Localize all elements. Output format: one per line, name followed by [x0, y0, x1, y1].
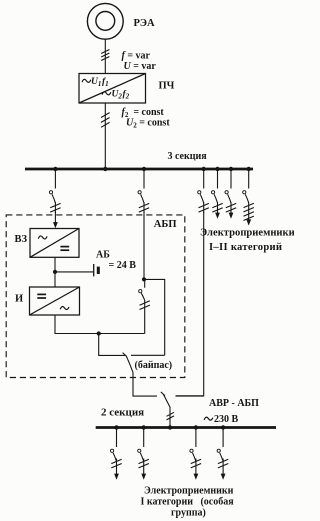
svg-text:И: И	[15, 293, 23, 304]
svg-text:(байпас): (байпас)	[135, 360, 173, 371]
svg-text:Электроприемники: Электроприемники	[144, 486, 234, 497]
svg-text:I–II категорий: I–II категорий	[209, 242, 282, 253]
svg-text:ПЧ: ПЧ	[159, 81, 175, 92]
svg-text:РЭА: РЭА	[134, 18, 156, 29]
svg-text:U2 = const: U2 = const	[126, 117, 170, 129]
svg-text:f = var: f = var	[122, 50, 151, 61]
svg-text:2 секция: 2 секция	[101, 406, 144, 418]
svg-text:U1f1: U1f1	[91, 77, 109, 88]
svg-text:= 24 В: = 24 В	[109, 260, 137, 271]
svg-text:ВЗ: ВЗ	[15, 234, 28, 245]
svg-text:АБП: АБП	[154, 219, 177, 230]
svg-text:U2f2: U2f2	[112, 90, 130, 101]
svg-text:U = var: U = var	[124, 61, 157, 72]
svg-text:группа): группа)	[171, 508, 206, 519]
svg-text:Электроприемники: Электроприемники	[200, 228, 294, 239]
svg-text:230 В: 230 В	[214, 414, 239, 425]
svg-text:I категории (особая: I категории (особая	[141, 497, 235, 508]
svg-text:3 секция: 3 секция	[168, 151, 208, 162]
svg-text:АВР - АБП: АВР - АБП	[209, 398, 259, 409]
